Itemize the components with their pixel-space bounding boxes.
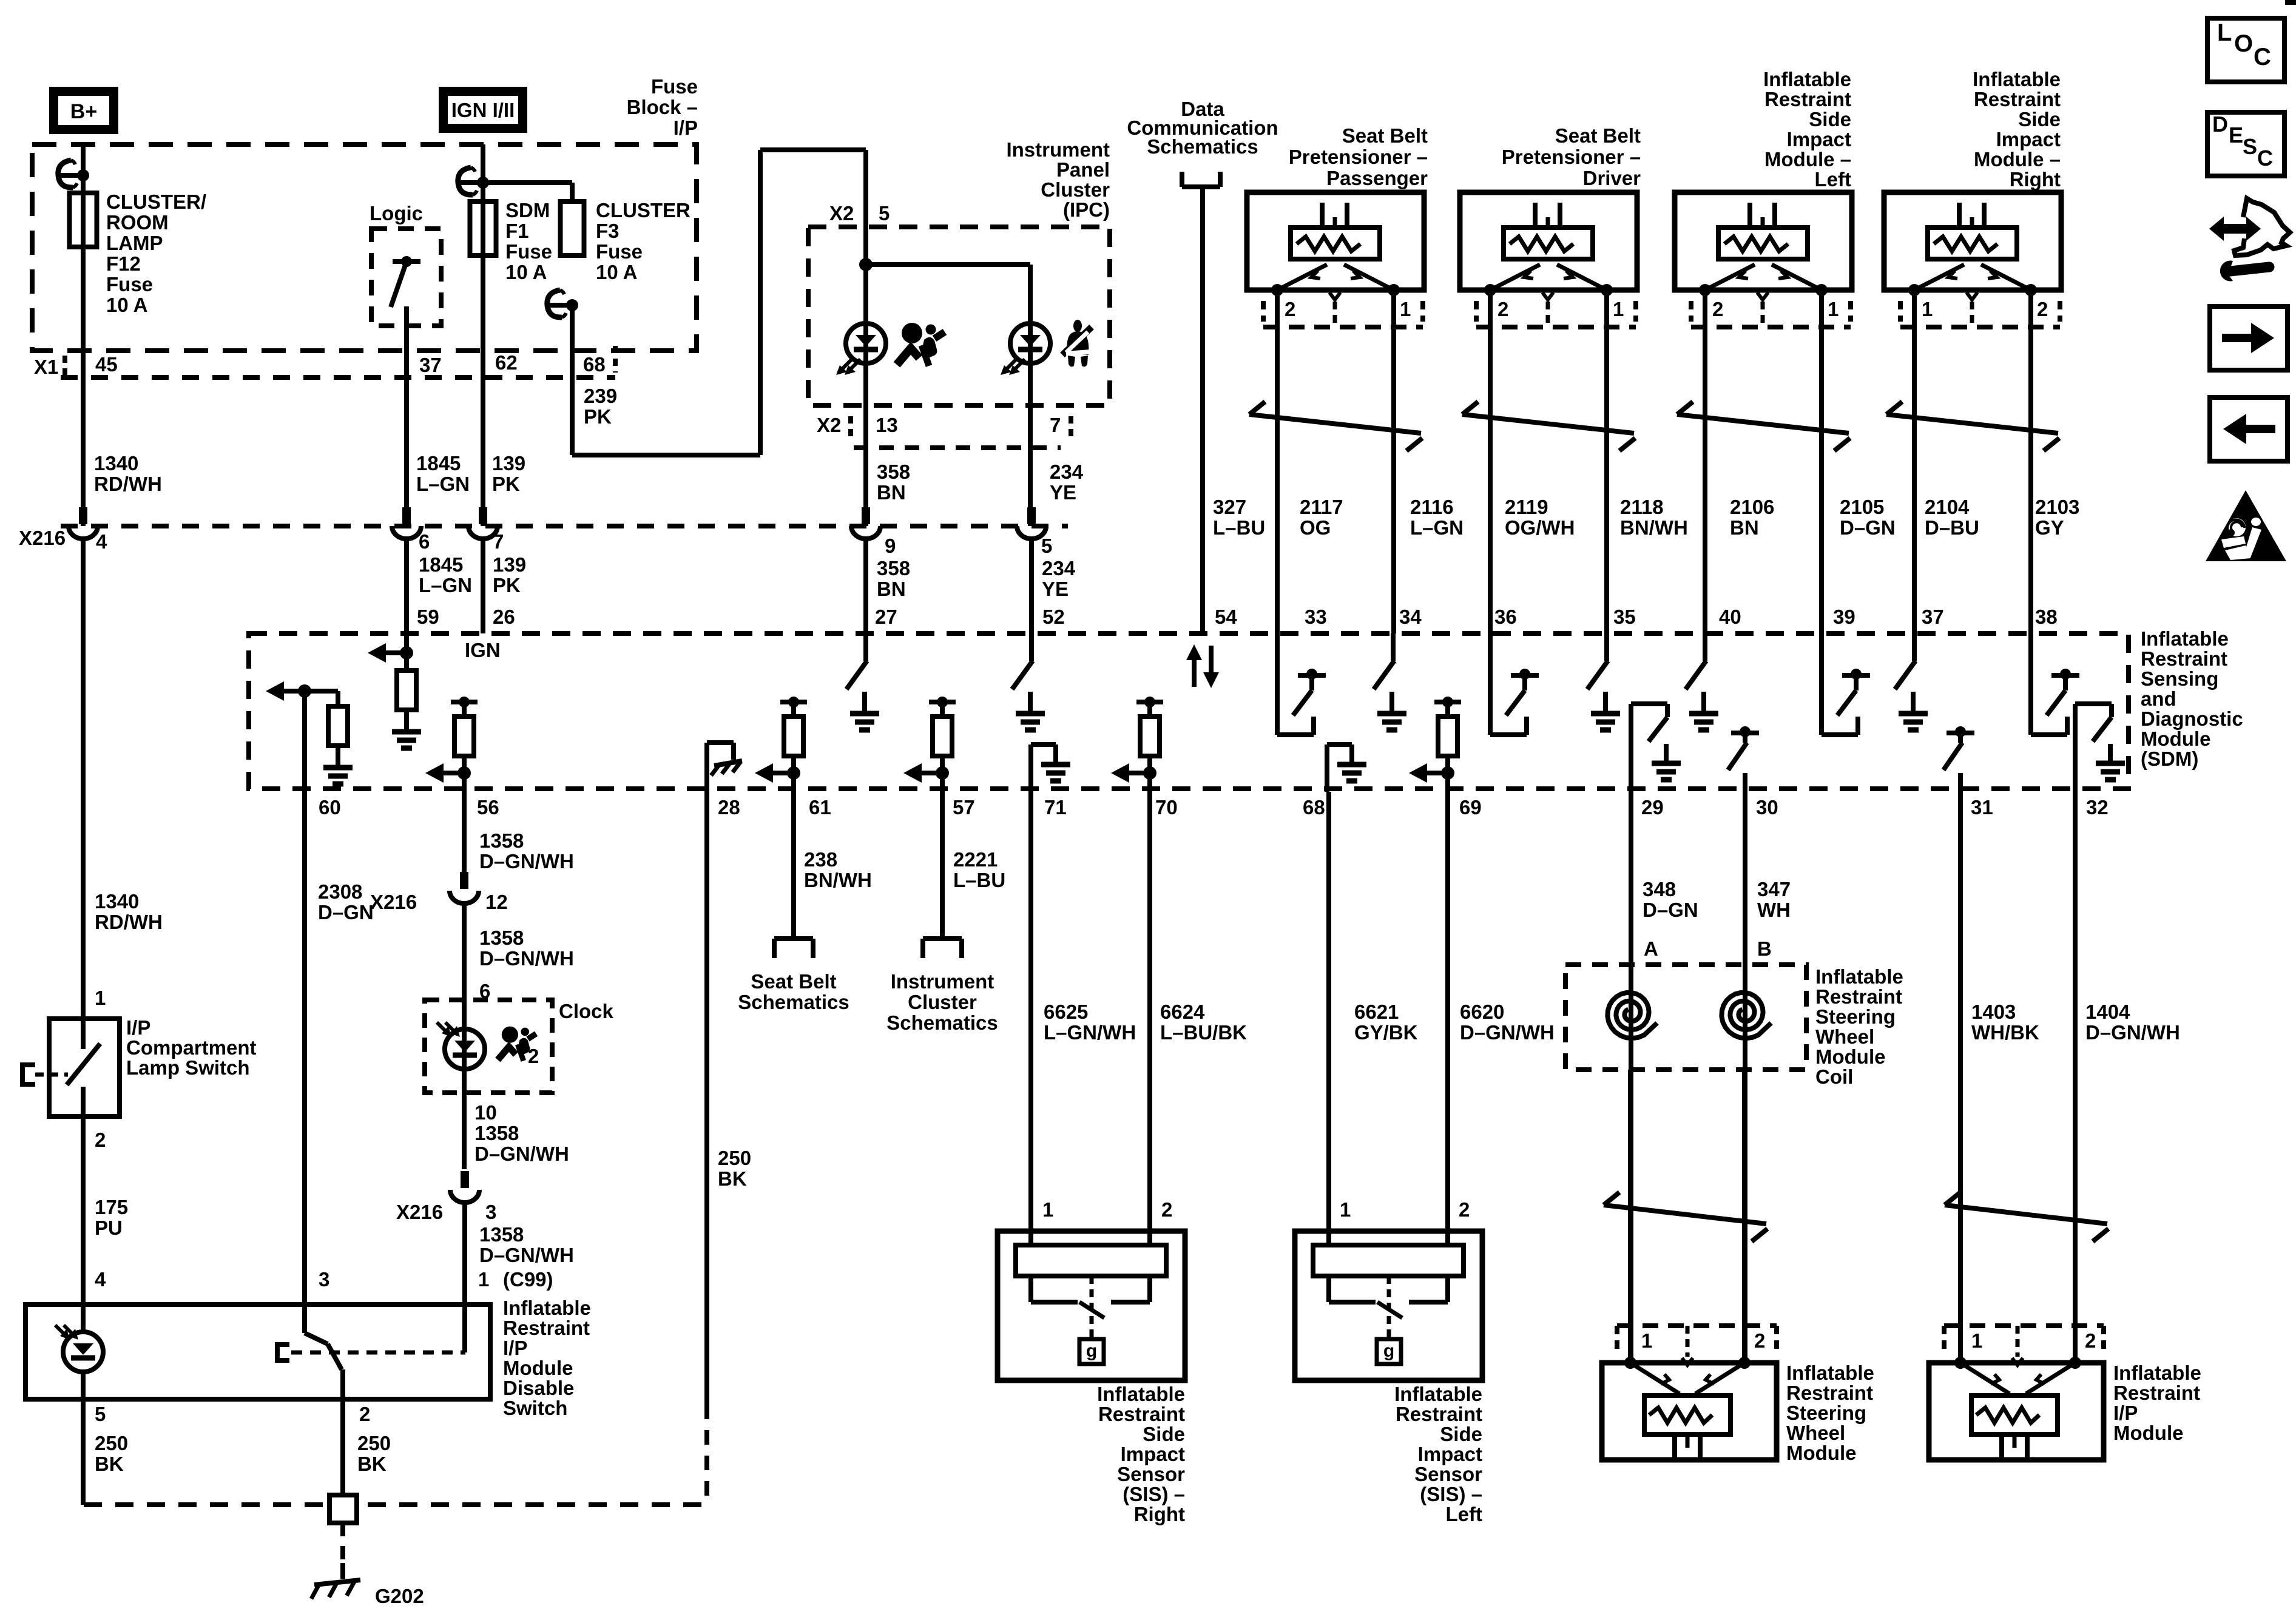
svg-text:Restraint: Restraint [1786,1382,1873,1404]
svg-text:RD/WH: RD/WH [94,473,162,495]
svg-text:69: 69 [1459,796,1482,819]
logic switch [391,256,420,307]
wire coil A down [1628,1070,1633,1363]
svg-text:Side: Side [1809,108,1851,130]
pin 3 disable [319,1268,329,1291]
svg-text:5: 5 [95,1403,106,1425]
label 327 L-BU [1213,496,1265,539]
label 1358 mid [479,927,574,970]
svg-text:Instrument: Instrument [891,970,994,993]
svg-text:31: 31 [1971,796,1993,819]
svg-text:GY/BK: GY/BK [1354,1021,1418,1044]
svg-text:39: 39 [1833,606,1855,628]
wire 250 BK pin 2 [340,1369,345,1495]
svg-text:1358: 1358 [479,829,524,852]
clock dashed box [425,1000,552,1093]
inflatable restraint side impact sensor right [998,1231,1185,1525]
svg-text:9: 9 [885,535,896,557]
pin 26 [493,606,515,628]
label Seat Belt Schematics [738,970,849,1013]
IPC dashed box [808,227,1110,405]
label steering wheel module coil [1815,965,1903,1088]
pin 61 [809,796,831,819]
svg-text:Sensing: Sensing [2141,667,2218,690]
svg-text:2104: 2104 [1925,496,1970,518]
svg-text:54: 54 [1215,606,1237,628]
connector X1 dashed line [61,346,615,377]
wire 348 pin 29 [1629,792,1633,1363]
svg-text:PU: PU [95,1217,123,1239]
svg-text:X216: X216 [396,1201,443,1223]
pin 35 [1613,606,1636,628]
label SDM [2141,627,2243,770]
SDM switch pin 31 [1943,726,1974,792]
svg-text:2: 2 [359,1403,370,1425]
svg-text:(SDM): (SDM) [2141,748,2198,770]
wire 6625 pin 71 [1028,792,1033,1245]
connector side impact module left [1691,292,1851,327]
wire through disable LED [81,1305,86,1399]
svg-text:5: 5 [879,202,890,224]
pin 32 [2086,796,2109,819]
svg-text:Inflatable: Inflatable [503,1297,591,1319]
disable switch blade [305,1305,342,1369]
breaker arc F3 out [547,290,578,317]
label 234 YE upper [1050,461,1084,504]
pin 33 [1305,606,1327,628]
LED seat belt indicator [1001,323,1050,375]
SDM switch pin 39 [1822,633,1870,735]
svg-text:Fuse: Fuse [505,240,552,263]
label 6621 GY/BK [1354,1001,1418,1044]
twisted wires side impact module right [1886,402,2059,451]
wire 358 to SDM 27 [863,538,868,633]
pin 62 [495,351,518,374]
svg-text:37: 37 [1922,606,1944,628]
svg-text:Module: Module [2141,727,2210,750]
pin 1 C99 [478,1268,553,1291]
svg-text:3: 3 [485,1201,496,1223]
svg-text:2: 2 [95,1129,106,1151]
svg-text:Right: Right [1134,1503,1185,1525]
svg-text:7: 7 [493,530,504,553]
SDM IGN junction [368,639,501,663]
page corner mark [2285,0,2296,5]
svg-text:I/P: I/P [2113,1402,2138,1424]
wire coil B down [1742,1070,1747,1363]
svg-text:YE: YE [1042,578,1069,600]
svg-text:Inflatable: Inflatable [1815,965,1903,988]
twisted wires IP module [1945,1192,2109,1241]
label 139 PK lower [493,553,526,596]
svg-text:30: 30 [1756,796,1778,819]
label side impact module right [1973,68,2061,191]
svg-text:Inflatable: Inflatable [2113,1362,2201,1384]
wire side impact module right pin 1 [1912,290,1917,633]
svg-text:60: 60 [319,796,341,819]
svg-text:6621: 6621 [1354,1001,1399,1023]
wire side impact module left pin 1 [1819,290,1824,633]
svg-text:Module: Module [2113,1422,2183,1444]
svg-text:Lamp Switch: Lamp Switch [126,1056,250,1079]
svg-text:Right: Right [2010,168,2061,191]
module box side impact module left [1675,192,1852,296]
svg-text:D–GN/WH: D–GN/WH [479,850,574,873]
svg-text:1404: 1404 [2085,1001,2130,1023]
label disable switch [503,1297,591,1419]
svg-text:2: 2 [1712,298,1723,320]
svg-text:BN/WH: BN/WH [1620,516,1688,539]
module box seat belt pretensioner driver [1460,192,1637,296]
wire seat belt pretensioner driver pin 2 [1488,290,1493,633]
svg-text:6: 6 [419,530,430,553]
svg-text:OG: OG [1300,516,1331,539]
svg-text:and: and [2141,687,2176,710]
svg-text:358: 358 [877,461,910,483]
icon DESC [2207,112,2284,176]
svg-text:56: 56 [477,796,499,819]
svg-text:Wheel: Wheel [1786,1422,1845,1444]
label 2117 OG [1300,496,1343,539]
svg-text:RD/WH: RD/WH [95,911,163,933]
label 250 BK right [357,1432,391,1475]
svg-text:Cluster: Cluster [908,991,977,1013]
svg-text:YE: YE [1050,481,1076,504]
pin 71 [1044,796,1067,819]
label fuse F12 [106,191,206,316]
svg-text:234: 234 [1042,557,1076,579]
svg-text:Instrument: Instrument [1006,138,1110,161]
svg-text:O: O [2234,30,2253,57]
inflatable restraint side impact sensor left [1295,1231,1482,1525]
pin 27 [875,606,897,628]
svg-text:Seat Belt: Seat Belt [1555,124,1641,147]
svg-text:2308: 2308 [318,880,362,903]
svg-text:Impact: Impact [1121,1443,1185,1465]
svg-text:Switch: Switch [503,1397,567,1419]
pin 56 [477,796,499,819]
svg-text:327: 327 [1213,496,1246,518]
svg-text:4: 4 [96,530,107,553]
svg-text:Restraint: Restraint [2141,647,2227,670]
svg-text:Steering: Steering [1815,1005,1896,1028]
connector X2 dashed line [854,445,1061,450]
pins 5 2 [95,1403,370,1425]
svg-text:Restraint: Restraint [1974,88,2061,110]
label fuse F1 [505,199,552,283]
svg-text:X2: X2 [817,414,841,436]
svg-text:Cluster: Cluster [1041,178,1110,201]
svg-text:2116: 2116 [1410,496,1454,518]
fuse block dashed box [32,144,697,351]
wire 234 to SDM 52 [1029,538,1034,633]
svg-text:38: 38 [2035,606,2058,628]
twisted wires seat belt pretensioner passenger [1249,402,1422,451]
icon LOC [2207,18,2284,82]
connector X2 pin 7 label [1050,414,1071,438]
pin 1 lamp switch [95,987,106,1009]
svg-text:Disable: Disable [503,1377,574,1399]
fuse F1 SDM [470,201,496,255]
module box side impact module right [1884,192,2061,296]
label 250 BK left [95,1432,128,1475]
pin 38 [2035,606,2058,628]
pin 4 [96,530,107,553]
twisted wires steering [1604,1192,1768,1241]
svg-text:X1: X1 [34,356,58,378]
label 1340 RD/WH lower [95,890,163,933]
ground bus dashed [84,1502,707,1507]
pin 37 [419,354,442,376]
ground G202 [311,1563,360,1599]
svg-text:D–GN/WH: D–GN/WH [1460,1021,1555,1044]
wire seat belt pretensioner passenger pin 2 [1275,290,1280,633]
svg-text:7: 7 [1050,414,1061,436]
label 2119 OG/WH [1505,496,1575,539]
svg-text:Restraint: Restraint [1764,88,1851,110]
wire side impact module right pin 2 [2028,290,2033,633]
svg-text:10 A: 10 A [596,261,637,283]
power terminal IGN I/II [439,87,527,133]
connector X2 pin 13 label [817,414,898,438]
svg-text:(SIS) –: (SIS) – [1420,1483,1482,1505]
svg-text:X216: X216 [370,891,417,913]
svg-text:1845: 1845 [419,553,463,576]
svg-text:348: 348 [1643,878,1676,900]
svg-text:Restraint: Restraint [503,1317,590,1339]
svg-text:Module –: Module – [1974,148,2061,170]
label IP compartment lamp switch [126,1016,257,1079]
svg-text:IGN I/II: IGN I/II [451,99,515,121]
SDM switch pin 35 [1587,633,1620,730]
svg-text:5: 5 [1041,535,1052,557]
svg-text:1: 1 [1641,1329,1652,1352]
label 1340 RD/WH [94,452,162,495]
svg-text:2: 2 [1285,298,1295,320]
svg-text:36: 36 [1494,606,1517,628]
svg-text:Inflatable: Inflatable [1786,1362,1874,1384]
svg-text:X2: X2 [829,202,854,224]
twisted wires seat belt pretensioner driver [1462,402,1635,451]
pin 52 [1042,606,1065,628]
SDM resistor pin 69 [1409,697,1461,783]
inflatable restraint steering wheel module [1602,1326,1777,1460]
svg-text:2103: 2103 [2035,496,2079,518]
connector X216 dashed line [61,524,1068,528]
breaker arc IGN [458,167,489,195]
SDM switch pin 29 [1631,704,1681,792]
pin 2 lamp switch [95,1129,106,1151]
wire 347 pin 30 [1743,792,1747,1363]
svg-text:10: 10 [474,1101,497,1124]
svg-text:BN: BN [1730,516,1759,539]
SDM switch pin 52 [1012,633,1045,730]
bracket seat belt schematics [774,939,813,958]
wire 175 PU [81,1116,86,1305]
svg-text:Impact: Impact [1787,128,1851,150]
label 2105 D-GN [1840,496,1896,539]
svg-text:2: 2 [1161,1198,1172,1221]
svg-text:CLUSTER: CLUSTER [596,199,690,221]
svg-text:Schematics: Schematics [1147,135,1258,158]
module box seat belt pretensioner passenger [1247,192,1424,296]
SDM resistor pin 57 [903,697,956,783]
SDM resistor pin 59 [392,633,421,748]
label Clock [559,1000,614,1022]
svg-text:2106: 2106 [1730,496,1774,518]
svg-text:L–GN: L–GN [416,473,470,495]
svg-text:CLUSTER/: CLUSTER/ [106,191,206,213]
svg-text:PK: PK [584,405,612,428]
pin 31 [1971,796,1993,819]
svg-text:L–BU: L–BU [953,869,1005,891]
connector X216 label [19,527,66,549]
SDM switch pin 27 [846,633,879,730]
svg-text:1340: 1340 [95,890,139,913]
svg-text:Inflatable: Inflatable [1097,1383,1185,1405]
wire 1845 to SDM 59 [404,538,409,633]
label Instrument Panel Cluster [1006,138,1110,221]
wire clock lamp [462,1000,467,1169]
svg-text:358: 358 [877,557,910,579]
icon airbag [897,323,945,366]
junction to F3 [483,180,572,185]
steering wheel coil dashed box [1565,965,1806,1070]
svg-text:D–GN/WH: D–GN/WH [474,1143,569,1165]
svg-text:Left: Left [1815,168,1852,191]
SDM switch pin 38 [2031,633,2079,735]
svg-text:Pretensioner –: Pretensioner – [1502,146,1641,168]
svg-text:Block –: Block – [627,96,698,118]
svg-text:C: C [2254,44,2271,70]
pin 70 [1155,796,1178,819]
svg-text:Impact: Impact [1418,1443,1482,1465]
pin 45 [95,353,118,376]
pin 37 [1922,606,1944,628]
svg-text:Inflatable: Inflatable [1763,68,1851,90]
wire 250 BK pin 28 [704,792,709,1505]
svg-text:Logic: Logic [370,202,423,224]
label 2308 D-GN [318,880,374,923]
wire IPC airbag lamp [863,227,868,526]
wire 1404 pin 32 [2073,792,2078,1363]
svg-text:59: 59 [417,606,439,628]
svg-text:D–GN/WH: D–GN/WH [479,947,574,970]
connector X216-12 label [370,891,508,913]
svg-text:BN: BN [877,578,906,600]
coil spiral A [1607,993,1657,1038]
svg-text:Seat Belt: Seat Belt [1342,124,1428,147]
wire IGN feed [481,144,485,526]
svg-text:BK: BK [718,1167,747,1190]
svg-text:S: S [2243,134,2257,159]
svg-text:SDM: SDM [505,199,550,221]
svg-text:L: L [2217,19,2232,46]
connector side impact module right [1900,292,2060,327]
pin 9 [885,535,896,557]
SDM ground pin 71 [1031,744,1070,792]
label 1404 D-GN/WH [2085,1001,2180,1044]
wire pin1 to switch [462,1305,467,1352]
connector seat belt pretensioner driver [1476,292,1636,327]
svg-text:G202: G202 [375,1585,424,1607]
svg-text:1403: 1403 [1971,1001,2016,1023]
wire pin 70 down [1147,773,1152,1245]
pins A B [1644,937,1772,960]
label 2103 GY [2035,496,2079,539]
label seat belt pretensioner passenger [1289,124,1428,189]
wire B+ feed [81,144,86,526]
wire logic output 1845 [404,306,409,526]
svg-text:Side: Side [1440,1423,1482,1445]
svg-text:L–BU/BK: L–BU/BK [1160,1021,1247,1044]
svg-text:L–GN: L–GN [1410,516,1464,539]
SDM resistor pin 70 [1111,697,1163,783]
pin 5 [1041,535,1052,557]
svg-text:2119: 2119 [1505,496,1548,518]
lamp switch blade [67,1019,100,1116]
svg-text:1: 1 [1922,298,1933,320]
SDM resistor pin 60 [266,681,353,784]
svg-text:1358: 1358 [479,927,524,949]
wire IPC belt lamp [1028,363,1033,526]
pin 59 [417,606,439,628]
svg-text:1: 1 [1613,298,1624,320]
label 348 D-GN [1643,878,1698,921]
wire 239 PK route to IPC [572,150,866,455]
SDM switch pin 30 [1728,726,1759,792]
pin 68 [1303,796,1325,819]
svg-text:Module: Module [503,1357,573,1379]
label 175 PU [95,1196,128,1239]
svg-text:1845: 1845 [416,452,461,474]
svg-text:F1: F1 [505,220,529,242]
pin 6 clock [479,980,490,1002]
svg-text:1: 1 [95,987,106,1009]
label 358 BN lower [877,557,910,600]
label Data Communication Schematics [1127,98,1278,158]
svg-text:Inflatable: Inflatable [1394,1383,1482,1405]
dashed wire to G202 [340,1523,345,1578]
svg-text:2: 2 [1459,1198,1470,1221]
svg-text:2: 2 [1754,1329,1765,1352]
svg-text:GY: GY [2035,516,2064,539]
svg-text:Seat Belt: Seat Belt [751,970,836,993]
svg-text:BN: BN [877,481,906,504]
label 358 BN upper [877,461,910,504]
SDM switch pin 34 [1374,633,1406,730]
svg-text:26: 26 [493,606,515,628]
label 1403 WH/BK [1971,1001,2039,1044]
svg-text:Side: Side [2018,108,2061,130]
LED disable switch [55,1325,103,1372]
svg-text:Steering: Steering [1786,1402,1866,1424]
svg-text:D–GN: D–GN [1840,516,1896,539]
svg-text:68: 68 [1303,796,1325,819]
label Logic [370,202,423,224]
label 1358 upper [479,829,574,873]
svg-text:3: 3 [319,1268,329,1291]
svg-text:238: 238 [804,848,837,871]
label 1845 L-GN lower [419,553,472,596]
svg-text:E: E [2229,123,2243,147]
svg-text:(IPC): (IPC) [1063,198,1110,221]
connector X216 pin 5 [1017,507,1046,539]
svg-text:I/P: I/P [674,116,698,139]
key symbol E disable switch [275,1342,465,1363]
svg-text:Restraint: Restraint [1815,985,1902,1008]
inflatable restraint IP module [1929,1326,2104,1460]
